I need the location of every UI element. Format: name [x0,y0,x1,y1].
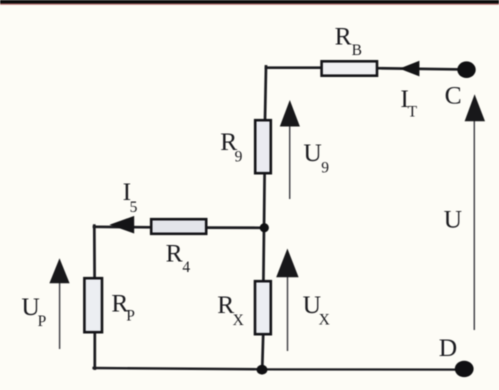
svg-text:X: X [233,312,244,329]
svg-text:B: B [352,42,362,59]
svg-text:U: U [303,138,321,167]
svg-text:5: 5 [130,199,138,216]
svg-text:R: R [166,239,183,268]
svg-text:9: 9 [321,160,329,177]
svg-text:P: P [126,308,135,325]
svg-text:D: D [439,333,457,362]
svg-text:P: P [38,313,47,330]
svg-text:C: C [445,81,462,110]
svg-text:R: R [335,21,352,50]
svg-text:4: 4 [182,259,190,276]
svg-text:T: T [408,103,418,120]
svg-text:U: U [444,204,462,233]
svg-text:9: 9 [235,148,243,165]
svg-text:X: X [319,311,330,328]
